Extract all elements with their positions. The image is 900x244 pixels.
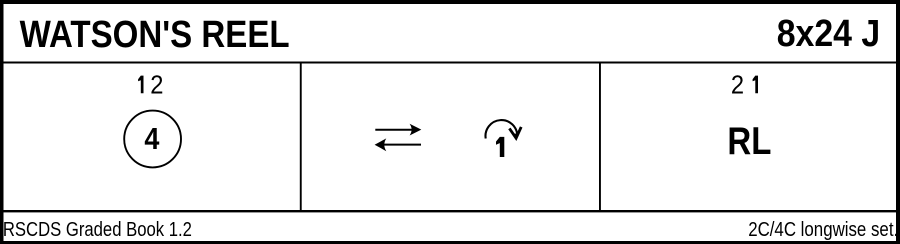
svg-text:WATSON'S REEL: WATSON'S REEL [20, 14, 290, 56]
svg-text:RL: RL [727, 120, 771, 163]
svg-text:4: 4 [144, 121, 160, 156]
svg-text:2: 2 [731, 71, 744, 99]
svg-text:8x24 J: 8x24 J [777, 13, 881, 55]
svg-text:RSCDS Graded Book 1.2: RSCDS Graded Book 1.2 [3, 219, 192, 241]
svg-text:2: 2 [150, 71, 163, 99]
svg-text:2C/4C longwise set.: 2C/4C longwise set. [748, 219, 898, 241]
